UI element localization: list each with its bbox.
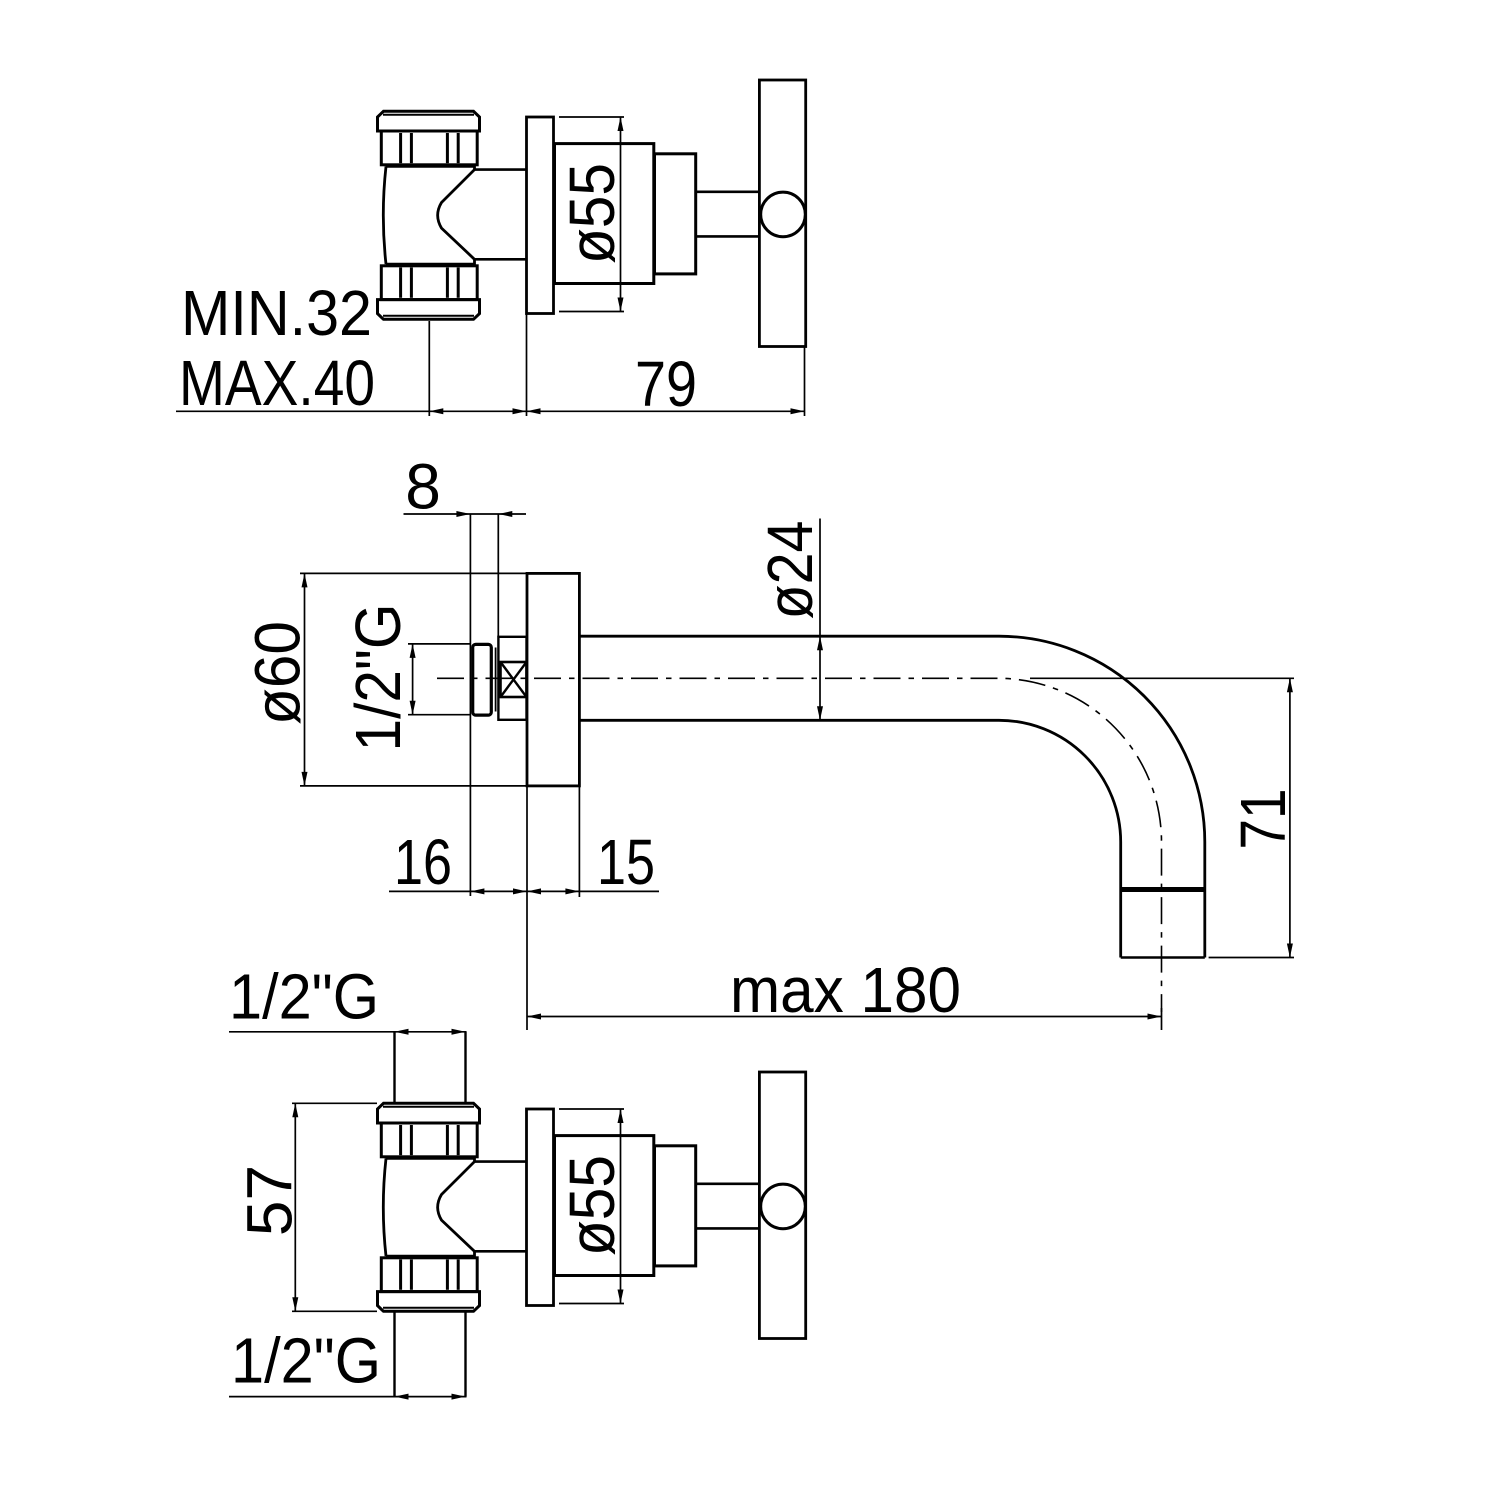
dim 1/2G line xyxy=(412,644,414,715)
dim 71 line xyxy=(1289,678,1291,957)
dim o60 line xyxy=(304,573,306,786)
svg-text:MAX.40: MAX.40 xyxy=(179,347,375,419)
dim 57 line xyxy=(294,1103,296,1311)
handle bar xyxy=(759,1072,805,1339)
svg-text:ø55: ø55 xyxy=(556,163,628,264)
valve cap bottom xyxy=(378,1292,480,1312)
svg-text:1/2"G: 1/2"G xyxy=(342,604,414,752)
svg-text:8: 8 xyxy=(405,451,441,523)
threaded nipple xyxy=(473,644,492,715)
extension valve center xyxy=(428,321,430,416)
valve collar bottom xyxy=(381,1258,477,1292)
handle knob circle xyxy=(761,1184,806,1229)
svg-text:ø55: ø55 xyxy=(556,1155,628,1256)
defs xyxy=(176,80,1299,1400)
spout end line xyxy=(1121,956,1205,959)
spout wall plate xyxy=(527,573,579,786)
o60 extension top xyxy=(300,572,579,574)
top pipe xyxy=(393,1032,395,1104)
dim o55 line xyxy=(620,117,622,312)
extension spout end center xyxy=(1161,1008,1163,1030)
dim 1/2G bottom line xyxy=(229,1396,467,1398)
valve cap bottom xyxy=(378,300,480,320)
svg-text:16: 16 xyxy=(394,826,452,898)
extension wall face down (max180 left) xyxy=(526,786,528,1030)
union housing xyxy=(498,637,526,720)
cartridge housing o55 xyxy=(555,1136,654,1276)
valve body xyxy=(386,1158,475,1256)
extension plate right down xyxy=(578,786,580,897)
valve collar top xyxy=(381,131,477,165)
valve body xyxy=(386,166,475,264)
dim 8 line xyxy=(404,513,527,515)
cartridge step rect xyxy=(655,1146,696,1266)
dim o24 line xyxy=(819,519,821,721)
wall plate xyxy=(527,1109,554,1306)
valve cap top xyxy=(378,111,480,131)
svg-text:max 180: max 180 xyxy=(730,954,961,1026)
dim 1/2G top line xyxy=(229,1031,467,1033)
dim 71 extension top xyxy=(1030,677,1294,679)
wall plate xyxy=(527,117,554,314)
aerator line xyxy=(1121,887,1205,892)
valve collar bottom xyxy=(381,266,477,300)
dim 71 extension bottom xyxy=(1209,957,1294,959)
handle bar xyxy=(759,80,805,347)
stem to wall plate xyxy=(475,168,527,171)
dim o55 line xyxy=(620,1109,622,1304)
extension bar right xyxy=(804,348,806,417)
1/2G extension lines xyxy=(408,643,470,645)
svg-text:15: 15 xyxy=(597,826,655,898)
o60 extension bottom xyxy=(300,785,579,787)
svg-text:71: 71 xyxy=(1227,789,1299,850)
svg-text:MIN.32: MIN.32 xyxy=(181,277,372,349)
extension line 8-left / 16-left xyxy=(469,514,471,896)
arrows xyxy=(429,408,443,414)
svg-text:1/2"G: 1/2"G xyxy=(229,961,379,1033)
stem to wall plate xyxy=(475,1160,527,1163)
extension line 8-right xyxy=(497,514,499,637)
union x-box xyxy=(501,662,527,697)
dim line xyxy=(176,410,805,412)
bottom pipe xyxy=(393,1311,395,1396)
handle knob circle xyxy=(761,192,806,237)
dim 57 extension lines xyxy=(292,1102,377,1104)
valve cap top xyxy=(378,1103,480,1123)
thread lines top collar xyxy=(399,133,402,163)
dim o55 extension lines xyxy=(559,1108,624,1110)
svg-text:ø60: ø60 xyxy=(242,621,314,725)
svg-text:79: 79 xyxy=(635,348,697,420)
dim o55 extension lines xyxy=(559,116,624,118)
svg-text:1/2"G: 1/2"G xyxy=(231,1325,381,1397)
cartridge step rect xyxy=(655,154,696,274)
spout tube outer xyxy=(579,636,1204,957)
svg-text:ø24: ø24 xyxy=(754,521,826,620)
dim max180 line xyxy=(527,1016,1162,1018)
dim 16/15 line xyxy=(389,890,659,892)
handle stem xyxy=(696,191,760,194)
handle stem xyxy=(696,1183,760,1186)
centerline xyxy=(437,678,1162,1012)
extension plate left xyxy=(526,314,528,417)
spout tube inner xyxy=(579,720,1120,957)
cartridge housing o55 xyxy=(555,144,654,284)
valve collar top xyxy=(381,1123,477,1157)
